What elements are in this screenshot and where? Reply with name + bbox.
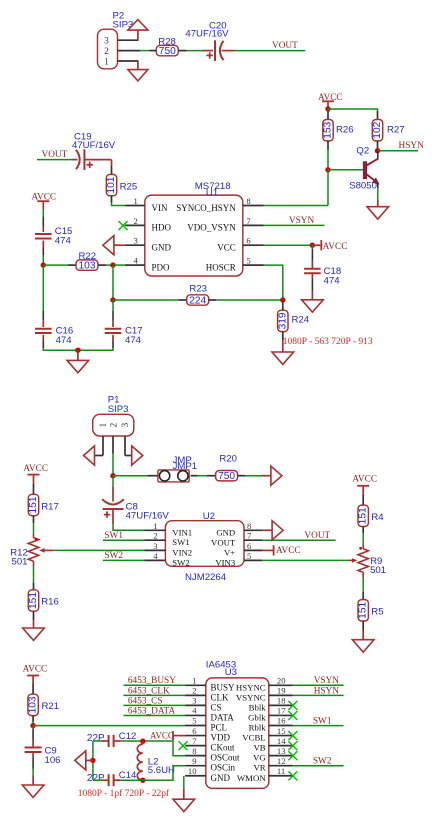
svg-text:1080P - 563 720P - 913: 1080P - 563 720P - 913 <box>283 337 373 347</box>
wire R17 to R12 <box>33 516 35 523</box>
pin 6 V+ <box>244 549 262 551</box>
node oscillator ground <box>90 758 95 763</box>
wire VSYN pin20 <box>293 684 344 686</box>
pin 8 SYNCO_HSYN <box>243 205 264 207</box>
no-connect X pin11 <box>288 771 297 780</box>
wire C20 to VOUT <box>234 50 305 52</box>
svg-text:474: 474 <box>55 235 72 246</box>
pin 1 BUSY <box>185 684 206 686</box>
svg-text:VR: VR <box>253 763 265 773</box>
capacitor C18 <box>304 268 321 270</box>
svg-text:C14: C14 <box>119 770 137 781</box>
svg-text:HSYN: HSYN <box>314 686 340 696</box>
ground arrow below R24 <box>272 352 294 364</box>
resistor R24 <box>282 301 284 310</box>
svg-text:9: 9 <box>192 756 196 766</box>
wire HSYN pin19 <box>293 694 344 696</box>
wire SW1 <box>103 539 145 541</box>
svg-text:VCC: VCC <box>217 243 236 253</box>
svg-text:CLK: CLK <box>211 692 230 702</box>
pin 4 DATA <box>185 714 206 716</box>
wire Q2 emitter to ground <box>377 188 379 200</box>
pin 11 WMON <box>269 775 293 777</box>
capacitor C9 <box>25 747 42 749</box>
svg-text:R4: R4 <box>371 512 384 523</box>
svg-text:15: 15 <box>277 726 286 736</box>
svg-text:1: 1 <box>104 56 109 66</box>
svg-text:VOUT: VOUT <box>272 41 298 51</box>
wire R20 to arrow <box>245 475 262 477</box>
svg-text:JMP1: JMP1 <box>173 461 198 472</box>
power port AVCC bar <box>320 240 322 250</box>
svg-text:R20: R20 <box>219 454 237 465</box>
svg-text:VOUT: VOUT <box>304 531 330 541</box>
wire R23 to node <box>216 299 282 301</box>
svg-text:R23: R23 <box>189 284 207 295</box>
svg-text:S8050: S8050 <box>349 181 377 192</box>
svg-text:8: 8 <box>247 521 251 531</box>
capacitor C20 (polarized) <box>214 40 216 61</box>
svg-text:6: 6 <box>246 236 251 246</box>
no-connect X pin17 <box>288 711 297 720</box>
svg-text:6453_DATA: 6453_DATA <box>128 706 176 716</box>
pin 6 VCC <box>243 244 264 246</box>
svg-text:VOUT: VOUT <box>211 537 236 547</box>
ground arrow below U3 <box>173 799 195 811</box>
svg-text:GND: GND <box>152 243 172 253</box>
ground arrow below Q2 <box>367 207 389 219</box>
power port AVCC at pin 6 <box>262 549 274 551</box>
svg-text:47UF/16V: 47UF/16V <box>185 29 229 40</box>
svg-text:8: 8 <box>246 196 250 206</box>
svg-text:U2: U2 <box>203 511 215 522</box>
resistor R22 <box>68 264 76 266</box>
svg-text:R22: R22 <box>79 251 97 262</box>
pin 7 VDO_VSYN <box>243 224 264 226</box>
capacitor C15 <box>35 233 52 235</box>
svg-text:CKout: CKout <box>211 743 236 753</box>
node base junction <box>325 167 330 172</box>
pin 9 OSCin <box>185 765 206 767</box>
svg-text:R28: R28 <box>158 37 176 48</box>
no-connect X pin15 <box>288 731 297 740</box>
node HSYN junction <box>375 148 380 153</box>
power arrow left oscillator ground <box>86 759 93 761</box>
svg-text:151: 151 <box>28 592 39 609</box>
svg-text:6453_BUSY: 6453_BUSY <box>128 676 176 686</box>
svg-text:14: 14 <box>277 736 286 746</box>
connector P1 <box>93 414 134 436</box>
svg-text:SW2: SW2 <box>104 551 123 561</box>
wire node down to C8 <box>112 476 114 487</box>
pin 2 HDO <box>125 224 145 226</box>
resistor R26 <box>327 111 329 120</box>
svg-text:VDO_VSYN: VDO_VSYN <box>187 223 236 233</box>
pin 4 PDO <box>125 264 145 266</box>
pin 1 VIN <box>125 205 145 207</box>
wire C14 left <box>93 779 102 781</box>
svg-text:OSCin: OSCin <box>211 763 236 773</box>
svg-text:8: 8 <box>192 746 196 756</box>
svg-text:2: 2 <box>134 216 138 226</box>
svg-text:3: 3 <box>153 541 157 551</box>
resistor R17 <box>28 494 38 515</box>
svg-text:BUSY: BUSY <box>211 682 236 692</box>
wire C18 to ground <box>311 273 313 278</box>
node dot R9 top <box>359 547 362 550</box>
svg-text:R16: R16 <box>41 597 59 608</box>
pin 1 of P1 <box>102 436 104 456</box>
svg-text:PCL: PCL <box>211 723 228 733</box>
no-connect X pin13 <box>288 751 297 760</box>
wire AVCC down to pin8 OSCout <box>173 740 185 756</box>
wire R12 to R16 <box>33 561 35 566</box>
capacitor C12 <box>108 735 110 747</box>
capacitor C17 <box>112 300 114 311</box>
svg-text:1: 1 <box>153 521 157 531</box>
wire AVCC to R27 <box>328 109 378 111</box>
pin 3 GND <box>125 244 145 246</box>
pin 19 VSYNC <box>269 694 293 696</box>
svg-text:17: 17 <box>277 706 286 716</box>
svg-text:VIN3: VIN3 <box>215 558 235 568</box>
ground arrow left column <box>23 628 45 640</box>
svg-text:7: 7 <box>246 216 251 226</box>
resistor R28 <box>150 50 156 52</box>
svg-text:AVCC: AVCC <box>23 464 48 474</box>
pin 3 CS <box>185 704 206 706</box>
node C18 junction <box>310 243 315 248</box>
svg-text:224: 224 <box>189 295 206 306</box>
svg-text:VDD: VDD <box>211 733 231 743</box>
svg-text:R26: R26 <box>336 125 354 136</box>
svg-text:13: 13 <box>277 746 286 756</box>
svg-text:V+: V+ <box>224 548 235 558</box>
pin 2 CLK <box>185 694 206 696</box>
svg-text:SW1: SW1 <box>104 531 123 541</box>
svg-text:R21: R21 <box>42 701 60 712</box>
wire C12 to L2 node <box>114 740 121 742</box>
potentiometer R12 <box>28 538 38 562</box>
svg-text:AVCC: AVCC <box>352 475 377 485</box>
svg-text:3: 3 <box>104 36 109 46</box>
svg-text:474: 474 <box>125 335 142 346</box>
wire pin6 to AVCC and C18 <box>264 244 313 246</box>
svg-text:501: 501 <box>370 565 386 576</box>
wire pin5 down to R23/R24 node <box>264 265 283 300</box>
svg-text:1: 1 <box>134 196 138 206</box>
wire R25 to U1 pin1 <box>112 203 125 206</box>
svg-text:22P: 22P <box>87 733 105 744</box>
wire 6453_BUSY <box>124 684 186 686</box>
resistor R25 <box>111 166 113 175</box>
svg-text:VIN1: VIN1 <box>172 527 192 537</box>
svg-text:SIP3: SIP3 <box>108 404 129 415</box>
wire C14 to L2 bottom node <box>114 779 121 781</box>
power arrow right P1 <box>125 455 132 457</box>
wire R16 to ground <box>33 611 35 620</box>
svg-text:10: 10 <box>188 766 197 776</box>
pin 15 VCBL <box>269 735 293 737</box>
svg-text:106: 106 <box>45 755 61 766</box>
svg-text:R5: R5 <box>371 606 383 617</box>
svg-text:Gblk: Gblk <box>248 712 266 722</box>
svg-text:5: 5 <box>192 716 196 726</box>
wire VOUT to C19 <box>37 159 72 161</box>
svg-text:4: 4 <box>192 706 197 716</box>
wire pin4-node down to C16 <box>42 265 44 311</box>
svg-text:DATA: DATA <box>211 712 235 722</box>
ground arrow below C18 <box>302 300 324 312</box>
svg-text:R17: R17 <box>41 502 59 513</box>
svg-text:VSYN: VSYN <box>289 216 315 226</box>
svg-text:103: 103 <box>28 696 39 713</box>
svg-text:5: 5 <box>247 551 251 561</box>
wire base node down to U1 pin8 net <box>327 170 329 206</box>
wire C17 to bottom rail <box>112 335 114 340</box>
svg-text:2: 2 <box>192 686 196 696</box>
svg-text:Bblk: Bblk <box>249 702 267 712</box>
svg-text:VSYNC: VSYNC <box>236 692 266 702</box>
wire R28 to C20 <box>186 50 203 52</box>
svg-text:750: 750 <box>218 471 235 482</box>
no-connect X pin14 <box>288 741 297 750</box>
wire R24 to ground <box>282 340 284 352</box>
svg-text:4: 4 <box>134 256 139 266</box>
svg-text:Q2: Q2 <box>356 145 369 156</box>
capacitor C14 <box>108 774 110 786</box>
wire C12 left <box>93 740 102 742</box>
svg-text:CS: CS <box>211 702 222 712</box>
svg-text:SW1: SW1 <box>313 717 332 727</box>
wire R4 to R9 <box>362 527 364 534</box>
wire SW2 pin12 <box>293 765 344 767</box>
pin 3 VIN2 <box>145 549 166 551</box>
wiper arrow R12 <box>44 549 53 551</box>
wire P2.2 to R28 <box>140 50 150 52</box>
svg-text:151: 151 <box>358 507 369 524</box>
svg-text:HDO: HDO <box>152 223 172 233</box>
pin 18 Bblk <box>269 704 293 706</box>
svg-text:Rblk: Rblk <box>249 723 267 733</box>
wire R12 wiper to pin3 <box>53 549 144 551</box>
wire pin7 VOUT <box>262 539 336 541</box>
svg-text:5: 5 <box>246 256 250 266</box>
svg-text:VOUT: VOUT <box>42 150 68 160</box>
svg-text:4: 4 <box>153 551 158 561</box>
pin 16 Rblk <box>269 725 293 727</box>
pin 6 VDD <box>185 735 206 737</box>
wire C15 to node <box>42 241 44 248</box>
svg-text:501: 501 <box>12 556 28 567</box>
svg-text:22P: 22P <box>87 773 105 784</box>
svg-text:HSYNC: HSYNC <box>236 682 266 692</box>
svg-text:SYNCO_HSYN: SYNCO_HSYN <box>176 203 236 213</box>
node PCL junction <box>30 723 35 728</box>
svg-text:3: 3 <box>120 422 130 427</box>
wire U3 pin10 GND to ground <box>183 776 185 788</box>
pin 5 HOSCR <box>243 264 264 266</box>
resistor R20 <box>207 475 216 477</box>
jumper JMP1 <box>158 470 189 482</box>
wire node down to R23 net <box>112 265 114 300</box>
resistor R16 <box>28 590 38 611</box>
svg-text:153: 153 <box>323 121 334 138</box>
capacitor C8 (polarized) <box>102 499 124 504</box>
svg-text:5.6UH: 5.6UH <box>148 765 175 776</box>
connector P2 <box>98 29 118 69</box>
svg-text:SW2: SW2 <box>313 757 332 767</box>
wire pin8 to Q2 base net <box>264 205 329 207</box>
resistor R21 <box>28 694 38 715</box>
svg-text:19: 19 <box>277 686 286 696</box>
capacitor C16 <box>35 328 52 330</box>
svg-text:47UF/16V: 47UF/16V <box>126 510 170 521</box>
svg-text:SW2: SW2 <box>172 557 189 567</box>
svg-text:VB: VB <box>253 743 265 753</box>
pin 8 GND <box>244 529 262 531</box>
svg-text:AVCC: AVCC <box>150 730 174 740</box>
resistor R5 <box>358 600 368 621</box>
wire R27 to HSYN node <box>377 149 379 152</box>
svg-text:WMON: WMON <box>237 773 266 783</box>
svg-text:474: 474 <box>324 275 341 286</box>
pin 12 VR <box>269 765 293 767</box>
svg-text:151: 151 <box>358 601 369 618</box>
svg-text:47UF/16V: 47UF/16V <box>72 140 116 151</box>
node L2 bottom <box>140 778 145 783</box>
wire base node to Q2 <box>328 169 363 171</box>
svg-text:AVCC: AVCC <box>276 546 301 556</box>
svg-text:12: 12 <box>277 756 286 766</box>
svg-text:VG: VG <box>253 753 266 763</box>
svg-text:R27: R27 <box>387 125 405 136</box>
svg-text:PDO: PDO <box>152 262 171 272</box>
svg-text:1: 1 <box>98 422 108 427</box>
resistor R4 <box>358 505 368 526</box>
svg-text:6: 6 <box>247 541 252 551</box>
pin 5 VIN3 <box>244 559 262 561</box>
wire C16 to bottom rail <box>42 335 44 340</box>
op-amp U1 MS7218 box <box>145 195 243 276</box>
svg-text:SW1: SW1 <box>172 537 189 547</box>
svg-text:1080P - 1pf 720P - 22pf: 1080P - 1pf 720P - 22pf <box>78 788 170 799</box>
svg-text:R25: R25 <box>120 182 138 193</box>
pin 8 OSCout <box>185 755 206 757</box>
pin 1 of P2 <box>118 60 139 62</box>
pin 1 VIN1 <box>145 529 166 531</box>
svg-text:20: 20 <box>277 676 286 686</box>
ground arrow right column <box>352 640 374 652</box>
pin 14 VB <box>269 745 293 747</box>
wire SW2 <box>103 559 145 561</box>
wire 6453_DATA <box>124 715 186 717</box>
wire node to JMP1 <box>113 475 148 477</box>
pin 2 SW1 <box>145 539 166 541</box>
wire to R22 <box>43 264 68 266</box>
wire P1.2 down to node <box>112 454 114 476</box>
svg-text:1: 1 <box>192 676 196 686</box>
svg-text:103: 103 <box>79 261 96 272</box>
svg-text:HOSCR: HOSCR <box>206 262 236 272</box>
wire node to U3 pin5 <box>33 725 185 727</box>
wire SW1 pin16 <box>293 725 344 727</box>
no-connect X pin7 <box>179 741 188 750</box>
node dot R12 top <box>35 538 38 541</box>
svg-text:AVCC: AVCC <box>23 665 48 675</box>
node L2 top <box>140 739 145 744</box>
wire R5 to ground <box>362 621 364 630</box>
pin 17 Gblk <box>269 714 293 716</box>
ground arrow below P2 <box>137 61 139 69</box>
wire left oscillator rail <box>92 741 94 780</box>
power arrow right after R20 <box>271 466 282 485</box>
pin 7 VOUT <box>244 539 262 541</box>
svg-text:750: 750 <box>159 46 176 57</box>
svg-text:7: 7 <box>247 531 252 541</box>
wire C19 to R25 <box>84 159 111 161</box>
wire R21 to node <box>32 716 34 722</box>
svg-text:319: 319 <box>277 312 288 329</box>
wire AVCC to C15 <box>42 209 44 216</box>
pin 7 CKout <box>185 745 206 747</box>
wire pin5 to R9 wiper <box>262 559 349 561</box>
svg-text:GND: GND <box>216 528 235 538</box>
pin 3 of P1 <box>124 436 126 456</box>
op-amp U2 NJM2264 box <box>165 521 244 567</box>
svg-text:R24: R24 <box>292 314 310 325</box>
pin 2 of P1 <box>112 436 114 454</box>
svg-text:7: 7 <box>192 736 197 746</box>
svg-text:U3: U3 <box>225 667 237 678</box>
power arrow left P1 <box>95 455 104 457</box>
node AVCC junction <box>325 106 330 111</box>
node R22 right / pin4 net <box>110 262 115 267</box>
ground arrow below C9 <box>22 785 44 797</box>
svg-text:11: 11 <box>277 766 285 776</box>
wire L2 bottom to pin9 OSCin <box>143 766 185 780</box>
svg-text:6453_CLK: 6453_CLK <box>128 686 170 696</box>
op-amp U3 IA6453 box <box>206 678 269 789</box>
power arrow right on pin 8 <box>262 529 273 531</box>
svg-text:3: 3 <box>192 696 196 706</box>
resistor R23 <box>179 299 187 301</box>
svg-text:18: 18 <box>277 696 286 706</box>
inductor L2 <box>137 744 142 780</box>
svg-text:16: 16 <box>277 716 286 726</box>
no-connect X pin18 <box>288 701 297 710</box>
power port arrow up <box>137 30 139 40</box>
node R24 top <box>280 297 285 302</box>
wire R26 to Q2 base node <box>327 150 329 170</box>
svg-text:3: 3 <box>134 236 138 246</box>
pin 3 of P2 <box>118 39 139 41</box>
svg-text:102: 102 <box>372 121 383 138</box>
capacitor C19 (polarized) <box>76 150 80 169</box>
svg-text:6453_CS: 6453_CS <box>128 696 163 706</box>
svg-text:OSCout: OSCout <box>211 753 241 763</box>
svg-text:GND: GND <box>211 773 231 783</box>
wire R9 to R5 <box>362 572 364 577</box>
pin 10 GND <box>185 775 206 777</box>
svg-text:VIN2: VIN2 <box>172 547 192 557</box>
no-connect X on pin 2 <box>119 221 128 230</box>
svg-text:VCBL: VCBL <box>242 733 265 743</box>
node ground rail <box>75 348 80 353</box>
svg-text:AVCC: AVCC <box>323 242 348 252</box>
power arrow left on pin 3 <box>114 244 125 246</box>
pin 20 HSYNC <box>269 684 293 686</box>
